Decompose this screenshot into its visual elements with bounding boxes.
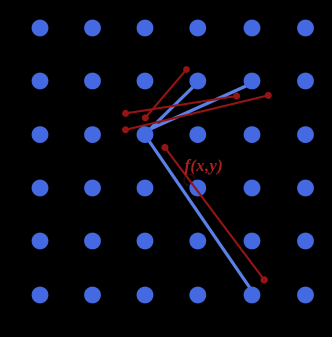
red endpoint dot near hub: [161, 144, 168, 151]
red endpoint dot far-right: [265, 92, 272, 99]
blue vector hub to dot r6c5: [147, 138, 250, 288]
red vector R2 long shallow: [126, 96, 237, 113]
red vector R3: [126, 95, 269, 129]
red endpoint dot mid-right: [233, 93, 240, 100]
red endpoint dot L2: [122, 126, 129, 133]
red endpoint dot L1: [122, 110, 129, 117]
blue vector hub to dot r2c5: [146, 86, 246, 131]
grid dots 6x6: [32, 20, 314, 304]
red vector R4 long down: [165, 148, 264, 280]
svg-text:f(x,y): f(x,y): [185, 156, 224, 175]
red vector R1 steep: [145, 70, 186, 118]
red endpoint dot top: [183, 66, 190, 73]
sample point open circle: [184, 175, 195, 186]
blue vector hub to dot r2c4: [145, 86, 194, 134]
red endpoint dot bottom-right: [261, 276, 268, 283]
red endpoint dot M: [142, 114, 149, 121]
